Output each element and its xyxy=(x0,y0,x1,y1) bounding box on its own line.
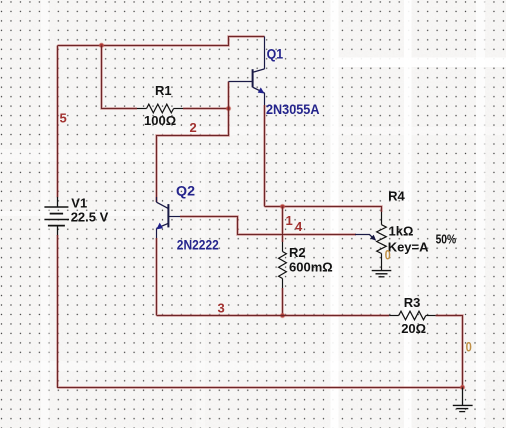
wire net 5 top horizontal with jog toward Q1 collector xyxy=(58,37,265,46)
svg-text:Q1: Q1 xyxy=(267,46,284,62)
svg-text:1: 1 xyxy=(286,213,293,228)
svg-text:20Ω: 20Ω xyxy=(401,321,426,336)
junction node 2 xyxy=(227,107,231,111)
wire node 2 down-left to Q2 collector xyxy=(157,109,229,203)
svg-text:2N2222: 2N2222 xyxy=(177,236,219,252)
svg-text:22.5 V: 22.5 V xyxy=(71,210,109,225)
wire Q1 emitter down to node 1 xyxy=(264,105,266,207)
svg-text:4: 4 xyxy=(295,219,303,234)
junction node 1 xyxy=(281,205,285,209)
svg-text:100Ω: 100Ω xyxy=(144,113,176,128)
wire net 5 branch down to R1 xyxy=(102,46,138,109)
ground at bottom right xyxy=(453,388,473,412)
wire Q2 emitter down to net 3 xyxy=(156,238,158,316)
wire node 1 horizontal to R4 top xyxy=(265,207,382,213)
svg-text:V1: V1 xyxy=(71,195,87,210)
svg-text:R3: R3 xyxy=(404,295,421,310)
svg-text:Key=A: Key=A xyxy=(388,240,429,255)
svg-text:1kΩ: 1kΩ xyxy=(389,224,414,239)
wire R3 right lead down to bottom rail xyxy=(436,316,463,388)
wire R1 right lead to node 2 xyxy=(183,108,229,110)
wire net 0 from battery minus to bottom rail xyxy=(58,235,463,388)
wiper arrow of R4 xyxy=(355,235,376,241)
junction node 0 xyxy=(461,385,465,389)
wire R2 bottom lead to node 3 xyxy=(282,288,284,316)
wire net 3 horizontal xyxy=(157,315,390,317)
resistor R3 xyxy=(389,311,435,320)
transistor Q1 xyxy=(229,37,265,106)
junction node 3 xyxy=(281,314,285,318)
svg-text:R2: R2 xyxy=(289,245,306,260)
svg-text:Q2: Q2 xyxy=(176,183,195,199)
resistor R2 xyxy=(279,242,287,288)
wire halo layer (soft red glow under all nets) xyxy=(58,37,463,388)
svg-text:2N3055A: 2N3055A xyxy=(266,101,320,117)
wire Q2 base to net 4 wiper xyxy=(180,217,356,235)
svg-text:600mΩ: 600mΩ xyxy=(289,260,333,275)
resistor R1 xyxy=(137,104,183,113)
svg-text:5: 5 xyxy=(60,110,67,125)
wire net 5 left vertical to V1 xyxy=(57,46,59,198)
transistor Q2 xyxy=(156,197,180,238)
svg-text:2: 2 xyxy=(190,120,197,135)
svg-text:0: 0 xyxy=(385,247,391,262)
ground under R4 xyxy=(372,271,392,277)
wire node 2 up to Q1 base xyxy=(228,82,230,109)
potentiometer R4 xyxy=(377,212,387,270)
svg-text:R1: R1 xyxy=(155,83,172,98)
junction node on net 5 xyxy=(100,43,104,47)
battery V1 xyxy=(44,197,69,235)
svg-text:50%: 50% xyxy=(436,232,457,247)
svg-text:3: 3 xyxy=(218,301,225,316)
svg-text:0: 0 xyxy=(466,340,472,355)
svg-text:R4: R4 xyxy=(388,188,405,203)
wire node 1 down to R2 top xyxy=(282,207,284,243)
